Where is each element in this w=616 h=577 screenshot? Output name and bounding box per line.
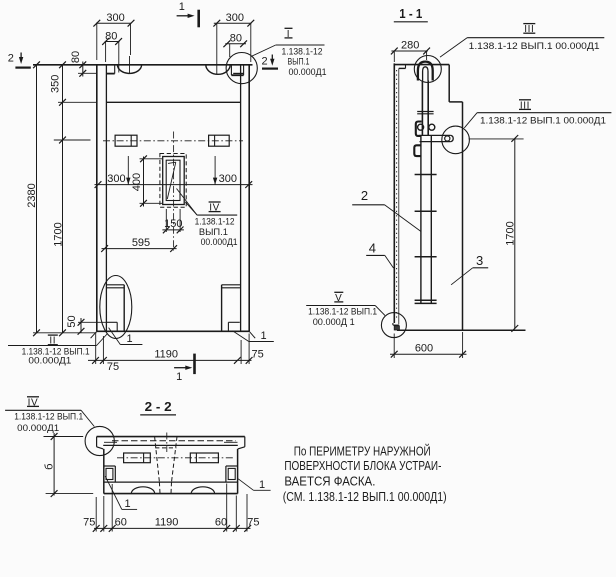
body left edge xyxy=(103,449,105,494)
section 1-1 step xyxy=(449,101,462,103)
svg-text:1190: 1190 xyxy=(154,349,178,361)
svg-text:1: 1 xyxy=(259,479,265,491)
svg-text:300: 300 xyxy=(106,12,124,24)
svg-text:IV: IV xyxy=(209,203,220,214)
dim 400 hole height xyxy=(143,157,145,207)
detail circle IV 2-2 xyxy=(85,426,114,455)
slot left bottom key rect xyxy=(106,321,117,323)
wire xyxy=(240,65,242,332)
section 1-1 top edge xyxy=(394,64,449,66)
embed box left xyxy=(115,135,137,146)
mortar dots band xyxy=(396,70,398,320)
detail circle I top-right xyxy=(226,53,257,84)
section 1-1 right edge lower xyxy=(462,102,464,330)
rung pair top xyxy=(417,111,433,113)
svg-text:350: 350 xyxy=(50,75,62,93)
channel arc left xyxy=(131,487,154,494)
hook eye right xyxy=(429,124,435,130)
svg-text:600: 600 xyxy=(415,343,433,355)
svg-text:2: 2 xyxy=(8,53,14,65)
svg-text:1: 1 xyxy=(176,371,182,383)
svg-text:300: 300 xyxy=(107,173,125,185)
svg-text:1.138.1-12 ВЫП.1: 1.138.1-12 ВЫП.1 xyxy=(308,307,377,318)
bottom extension verticals xyxy=(95,334,97,365)
svg-text:75: 75 xyxy=(107,361,119,373)
svg-text:80: 80 xyxy=(70,51,82,63)
central hole dashed outline xyxy=(160,154,186,208)
hook C upper xyxy=(416,122,422,137)
hole taper diagonals xyxy=(167,162,176,199)
svg-text:1700: 1700 xyxy=(53,222,65,246)
svg-text:60: 60 xyxy=(215,516,227,528)
cap axis long dashes xyxy=(112,440,236,442)
wire xyxy=(248,65,250,332)
dim 300 top-right xyxy=(214,22,252,24)
cap right end xyxy=(244,437,246,447)
detail circle V bottom xyxy=(381,313,406,338)
lifting notch semicircle right xyxy=(206,65,230,75)
extension verticals 2-2 xyxy=(95,497,97,532)
svg-text:1.138.1-12: 1.138.1-12 xyxy=(195,216,235,227)
dim 280 xyxy=(391,50,427,52)
notch right 2-2 xyxy=(226,465,238,467)
leader 1 bottom-left xyxy=(109,328,121,345)
taper dashed right xyxy=(172,437,178,483)
slot right wall xyxy=(221,285,223,332)
svg-text:1: 1 xyxy=(126,333,132,345)
dim 80 top-left xyxy=(105,41,120,43)
svg-text:1 - 1: 1 - 1 xyxy=(399,7,422,21)
svg-text:ВАЕТСЯ ФАСКА.: ВАЕТСЯ ФАСКА. xyxy=(284,474,375,489)
dim b left 2-2 xyxy=(53,433,55,496)
dim 80 top-right xyxy=(225,43,246,45)
svg-text:1.138.1-12 ВЫП.1: 1.138.1-12 ВЫП.1 xyxy=(14,412,83,423)
mid dimension line xyxy=(95,184,253,186)
taper dash in band left xyxy=(158,482,161,494)
slot right top double edge xyxy=(222,284,241,286)
svg-text:2: 2 xyxy=(361,188,368,203)
dim 595 xyxy=(102,248,177,250)
svg-text:595: 595 xyxy=(132,237,150,249)
dim 2380 vertical line xyxy=(36,65,38,333)
svg-text:ВЫП.1: ВЫП.1 xyxy=(288,57,310,68)
ladder rung 2 xyxy=(415,210,437,212)
detail label II xyxy=(48,334,58,336)
anchor bar eye xyxy=(445,136,450,141)
bottom corner chamfer right xyxy=(249,331,255,338)
leader 1 bottom-right xyxy=(233,331,249,342)
dim chain 350/1700 vertical line xyxy=(62,65,64,333)
svg-text:80: 80 xyxy=(105,30,117,42)
bottom band top xyxy=(104,481,238,483)
svg-text:I: I xyxy=(287,29,290,40)
taper dashed left xyxy=(155,437,160,483)
svg-text:00.000Д1: 00.000Д1 xyxy=(289,67,327,78)
extension line at embed row level xyxy=(54,139,91,141)
svg-text:1: 1 xyxy=(179,1,185,13)
bottom dim line xyxy=(88,359,252,361)
anchor rod pair xyxy=(421,81,423,137)
recess left xyxy=(106,73,114,75)
horizontal anchor bar xyxy=(418,134,450,136)
wire xyxy=(105,65,107,332)
dim 300 top-left xyxy=(96,22,131,24)
ladder rung 3 xyxy=(415,256,437,258)
svg-text:1: 1 xyxy=(261,330,267,342)
central hole outer rect xyxy=(163,157,185,205)
extension line semicircle left xyxy=(129,56,131,74)
embed axis dash-dot 2-2 xyxy=(117,457,233,459)
svg-text:4: 4 xyxy=(369,241,376,256)
section 1-1 right edge upper xyxy=(448,65,450,102)
slot left wall xyxy=(123,285,125,332)
svg-text:400: 400 xyxy=(131,173,143,191)
dim 600 xyxy=(390,353,467,355)
leader 1 right 2-2 xyxy=(238,479,253,491)
dim 80 vertical small xyxy=(82,62,84,77)
lifting loop inner xyxy=(423,67,428,81)
hook eye left xyxy=(418,124,424,130)
svg-text:1: 1 xyxy=(125,498,131,510)
cap top edge xyxy=(97,436,245,438)
svg-text:75: 75 xyxy=(247,516,259,528)
extension at hook bar level xyxy=(469,138,524,140)
extension line at 350 level xyxy=(58,101,96,103)
svg-text:V: V xyxy=(335,293,342,304)
svg-text:280: 280 xyxy=(401,40,419,52)
svg-text:3: 3 xyxy=(476,253,483,268)
svg-text:1700: 1700 xyxy=(505,221,517,245)
ladder rails xyxy=(420,136,422,303)
detail label IV 2-2 xyxy=(27,396,39,398)
svg-text:300: 300 xyxy=(219,173,237,185)
svg-text:00.000Д 1: 00.000Д 1 xyxy=(313,317,355,328)
center dash-dot 2-2 xyxy=(166,433,168,453)
embed row axis dash-dot xyxy=(103,140,243,142)
svg-text:III: III xyxy=(524,24,534,35)
channel arc right xyxy=(191,487,214,494)
wire xyxy=(97,330,249,332)
svg-text:60: 60 xyxy=(115,516,127,528)
front view: block elevation outline xyxy=(33,64,253,66)
dim 1700 right xyxy=(514,138,516,328)
svg-text:150: 150 xyxy=(164,218,182,230)
recess right with diagonal xyxy=(230,65,232,75)
arrow stub right 300 xyxy=(214,156,216,185)
svg-text:2380: 2380 xyxy=(26,183,38,207)
svg-text:(СМ. 1.138.1-12 ВЫП.1 00.000Д1: (СМ. 1.138.1-12 ВЫП.1 00.000Д1) xyxy=(283,489,447,504)
svg-text:1.138.1-12 ВЫП.1 00.000Д1: 1.138.1-12 ВЫП.1 00.000Д1 xyxy=(480,115,606,126)
embed box right xyxy=(209,135,230,146)
wire xyxy=(96,65,98,332)
bottom extension line left xyxy=(33,332,97,334)
svg-text:По ПЕРИМЕТРУ НАРУЖНОЙ: По ПЕРИМЕТРУ НАРУЖНОЙ xyxy=(294,443,431,458)
svg-text:00.000Д1: 00.000Д1 xyxy=(28,355,71,366)
detail oval II around left slot xyxy=(100,276,132,339)
detail circle III middle xyxy=(442,126,470,154)
wire xyxy=(106,101,240,103)
vertical centerline dash-dot xyxy=(173,132,175,251)
section 1-1 left edge xyxy=(393,63,395,323)
embed box right 2-2 xyxy=(190,453,218,463)
svg-text:IV: IV xyxy=(28,397,39,408)
detail label I xyxy=(285,27,293,29)
svg-text:00.000Д1: 00.000Д1 xyxy=(201,237,238,248)
lifting notch semicircle left xyxy=(117,65,141,74)
hook C lower xyxy=(414,145,421,156)
detail circle III top xyxy=(414,56,441,83)
svg-text:2 - 2: 2 - 2 xyxy=(145,400,172,414)
section 1-1 bottom edge xyxy=(397,329,526,331)
body right edge xyxy=(237,449,239,494)
slot left top double edge xyxy=(106,284,124,286)
taper dashed top xyxy=(155,447,176,449)
detail label IV front xyxy=(209,201,221,203)
svg-text:ПОВЕРХНОСТИ БЛОКА УСТРАИ-: ПОВЕРХНОСТИ БЛОКА УСТРАИ- xyxy=(284,458,441,473)
cap left end xyxy=(96,437,98,447)
svg-text:75: 75 xyxy=(251,349,263,361)
svg-text:III: III xyxy=(520,100,530,111)
detail label III top xyxy=(523,23,535,25)
leader from hole to label IV xyxy=(177,189,198,216)
section 1-1 inner left line xyxy=(398,68,400,324)
bottom dim line 2-2 xyxy=(94,527,251,529)
taper dash in band right xyxy=(170,482,173,494)
detail label V xyxy=(334,291,343,293)
svg-text:1.138.1-12 ВЫП.1 00.000Д1: 1.138.1-12 ВЫП.1 00.000Д1 xyxy=(469,41,600,52)
dim 50 vertical small xyxy=(80,318,82,333)
lifting loop outer xyxy=(418,62,433,81)
slot right bottom key rect xyxy=(227,322,229,331)
notch left 2-2 xyxy=(104,465,116,467)
central hole inner rect xyxy=(166,160,180,200)
detail label III middle xyxy=(519,99,531,101)
svg-text:1190: 1190 xyxy=(155,516,179,528)
ladder rung bottom double xyxy=(415,299,437,301)
arrow stub left 300 xyxy=(127,156,129,185)
leader 1 left 2-2 xyxy=(105,476,122,509)
svg-text:00.000Д1: 00.000Д1 xyxy=(17,423,59,434)
bottom band bottom xyxy=(104,493,238,495)
svg-text:50: 50 xyxy=(66,315,78,327)
top-left corner step xyxy=(399,67,406,69)
ladder rung 1 xyxy=(415,174,437,176)
svg-text:2: 2 xyxy=(262,56,268,68)
svg-text:75: 75 xyxy=(83,516,95,528)
embed box left 2-2 xyxy=(124,453,151,463)
dim 150 hole width xyxy=(162,229,184,231)
extension at bottom level right xyxy=(466,329,526,331)
svg-text:300: 300 xyxy=(226,12,244,24)
svg-text:80: 80 xyxy=(230,33,242,45)
corner V step and key xyxy=(392,323,394,325)
cap bottom edge xyxy=(103,444,238,446)
bottom corner chamfer left xyxy=(91,331,97,338)
svg-text:б: б xyxy=(43,464,55,470)
